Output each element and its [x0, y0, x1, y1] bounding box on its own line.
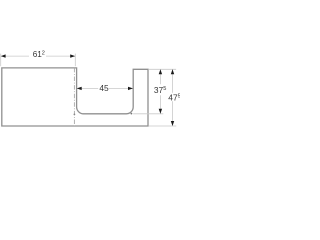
- extension line left of 61 dim: [0, 54, 2, 67]
- top extension line (right): [148, 68, 176, 70]
- washtop outline: [2, 68, 148, 126]
- arrow right 45: [128, 87, 133, 90]
- dot on centerline: [74, 114, 76, 116]
- arrow left 61: [1, 54, 6, 57]
- dot at right notch corner: [131, 113, 133, 115]
- arrow left 45: [77, 87, 82, 90]
- extension line right of 61 dim: [74, 54, 76, 67]
- arrow right 61: [70, 54, 75, 57]
- dash-dot centerline: [73, 68, 75, 126]
- arrow down 47: [171, 121, 174, 126]
- arrow up 37: [159, 69, 162, 74]
- arrow down 37: [159, 109, 162, 114]
- bottom extension line (47 bottom): [149, 125, 177, 127]
- dimension line 37^5: [159, 70, 161, 85]
- dimension line 61: [1, 55, 29, 57]
- dimension line 47^5: [172, 70, 174, 93]
- mid extension line (37 bottom): [133, 113, 163, 115]
- svg-text:45: 45: [99, 83, 109, 93]
- arrow up 47: [171, 69, 174, 74]
- dimension line 45: [77, 87, 98, 89]
